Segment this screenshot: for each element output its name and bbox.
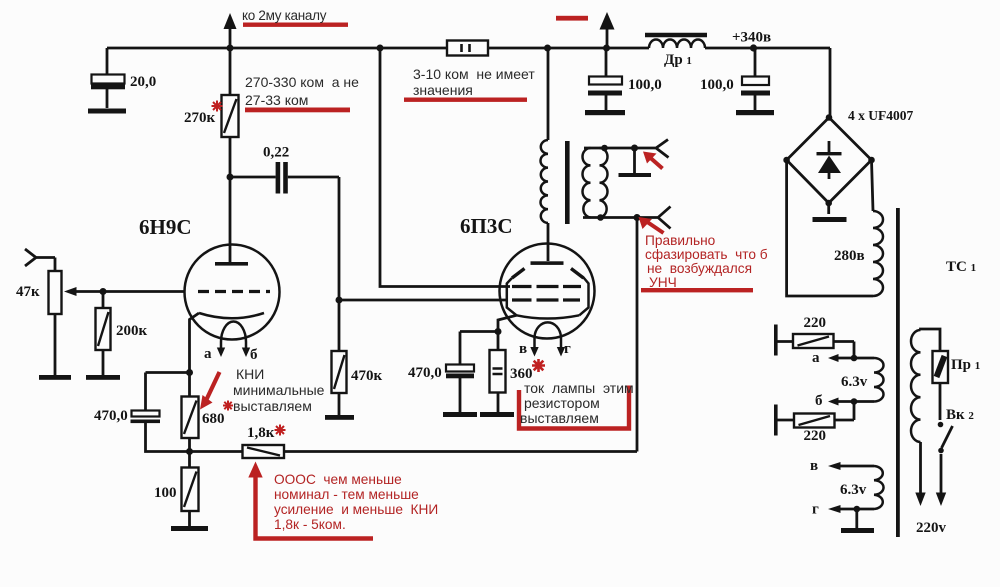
svg-text:значения: значения: [413, 82, 473, 98]
svg-text:220v: 220v: [916, 520, 947, 536]
svg-text:Пр 1: Пр 1: [951, 357, 980, 373]
svg-text:Др 1: Др 1: [664, 52, 692, 68]
svg-text:3-10 ком не имеет: 3-10 ком не имеет: [413, 66, 535, 82]
svg-text:6.3v: 6.3v: [841, 374, 868, 390]
svg-text:1,8к: 1,8к: [247, 425, 275, 441]
svg-text:резистором: резистором: [524, 395, 600, 411]
svg-text:0,22: 0,22: [263, 145, 289, 161]
svg-text:Вк 2: Вк 2: [946, 407, 974, 423]
svg-text:ТС 1: ТС 1: [946, 259, 976, 275]
svg-text:минимальные: минимальные: [233, 382, 325, 398]
svg-text:6П3С: 6П3С: [460, 214, 513, 238]
svg-text:УНЧ: УНЧ: [649, 275, 677, 290]
svg-text:470,0: 470,0: [94, 408, 128, 424]
svg-text:выставляем: выставляем: [520, 410, 599, 426]
svg-text:а: а: [812, 350, 820, 366]
svg-text:6Н9С: 6Н9С: [139, 215, 192, 239]
svg-text:27-33 ком: 27-33 ком: [245, 92, 308, 108]
svg-text:выставляем: выставляем: [233, 398, 312, 414]
svg-text:+340в: +340в: [732, 30, 771, 46]
svg-text:220: 220: [804, 315, 827, 331]
svg-text:номинал - тем меньше: номинал - тем меньше: [274, 487, 419, 502]
svg-text:а: а: [204, 346, 212, 362]
svg-text:200к: 200к: [116, 323, 148, 339]
svg-text:470к: 470к: [351, 368, 383, 384]
svg-text:г: г: [812, 502, 819, 518]
svg-text:280в: 280в: [834, 248, 865, 264]
svg-text:в: в: [810, 458, 818, 474]
svg-text:сфазировать что б: сфазировать что б: [645, 247, 768, 262]
svg-text:не возбуждался: не возбуждался: [647, 261, 752, 276]
svg-text:470,0: 470,0: [408, 365, 442, 381]
svg-text:100,0: 100,0: [700, 77, 734, 93]
svg-text:100,0: 100,0: [628, 77, 662, 93]
svg-text:г: г: [564, 341, 571, 357]
svg-text:47к: 47к: [16, 284, 40, 300]
svg-text:6.3v: 6.3v: [840, 482, 867, 498]
svg-text:270-330 ком а не: 270-330 ком а не: [245, 74, 359, 90]
svg-text:100: 100: [154, 485, 177, 501]
svg-text:в: в: [519, 341, 527, 357]
svg-text:усиление и меньше КНИ: усиление и меньше КНИ: [274, 502, 438, 517]
svg-text:220: 220: [804, 428, 827, 444]
svg-text:1,8к - 5ком.: 1,8к - 5ком.: [274, 517, 346, 532]
svg-text:360: 360: [510, 366, 533, 382]
svg-text:20,0: 20,0: [130, 74, 156, 90]
svg-text:КНИ: КНИ: [236, 366, 264, 382]
svg-text:ко 2му каналу: ко 2му каналу: [242, 8, 327, 23]
svg-text:б: б: [250, 347, 258, 363]
svg-text:ОООС чем меньше: ОООС чем меньше: [274, 472, 402, 487]
svg-text:680: 680: [202, 411, 225, 427]
svg-text:4 x UF4007: 4 x UF4007: [848, 108, 913, 123]
svg-text:270к: 270к: [184, 110, 216, 126]
svg-text:б: б: [815, 393, 823, 409]
svg-text:Правильно: Правильно: [645, 233, 716, 248]
svg-text:ток лампы этим: ток лампы этим: [524, 380, 634, 396]
